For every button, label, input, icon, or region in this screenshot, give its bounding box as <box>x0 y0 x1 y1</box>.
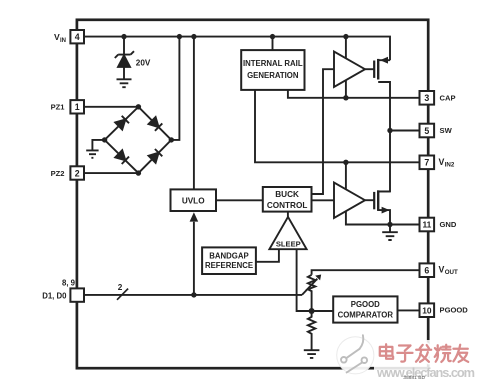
wire PGOOD comparator to pin 10 <box>398 309 420 311</box>
transistor Q2 NMOS gate lead <box>365 199 374 201</box>
watermark chinese characters 电子发烧友 <box>380 344 468 362</box>
triangle SLEEP comparator <box>269 217 306 249</box>
svg-text:www.elecfans.com: www.elecfans.com <box>376 365 475 380</box>
arrowhead into UVLO <box>190 212 199 221</box>
wire driver1 top power rail <box>345 37 347 59</box>
svg-text:GND: GND <box>440 220 457 229</box>
wire VIN rail down to UVLO top <box>193 37 195 190</box>
svg-text:PGOOD: PGOOD <box>440 306 469 315</box>
wire VIN rail down to INTERNAL RAIL GENERATION <box>272 37 274 51</box>
bus width slash and label 2 <box>117 289 128 300</box>
svg-text:2: 2 <box>75 168 80 178</box>
wire bridge right node to VIN rail <box>171 37 179 140</box>
wire driver1 bottom rail to CAP line <box>345 80 347 98</box>
svg-text:35881 BD: 35881 BD <box>403 375 425 381</box>
zener diode 20V <box>115 51 134 79</box>
wire driver2 top rail from VIN2 <box>345 162 347 189</box>
wire BUCK to driver2 input <box>312 199 335 201</box>
wire PZ1 to bridge top node <box>84 106 138 108</box>
svg-text:UVLO: UVLO <box>182 196 205 205</box>
resistor R2 (divider bottom) <box>308 311 315 350</box>
pin 11 box <box>420 218 435 232</box>
wire VIN rail (pin 4 to PMOS drain corner) <box>84 37 390 61</box>
wire zener stub from VIN rail <box>123 37 125 55</box>
box INTERNAL RAIL GENERATION <box>241 50 304 90</box>
svg-text:1: 1 <box>75 102 80 112</box>
ground below zener <box>117 79 132 87</box>
wire driver2 bottom rail and GND line to pin 11 <box>346 211 420 224</box>
svg-text:BUCK: BUCK <box>275 190 299 199</box>
svg-text:IN2: IN2 <box>445 162 455 169</box>
svg-text:GENERATION: GENERATION <box>247 71 299 80</box>
pin 1 box <box>70 100 84 113</box>
svg-text:4: 4 <box>75 32 80 42</box>
pin 6 box <box>420 263 435 277</box>
svg-text:SLEEP: SLEEP <box>276 239 301 248</box>
svg-text:7: 7 <box>424 158 429 168</box>
wiper arrow of programmable divider <box>302 279 317 295</box>
pin 7 box <box>420 156 435 170</box>
svg-text:CONTROL: CONTROL <box>267 201 307 210</box>
wire CAP line from IRG to pin 3 <box>288 90 420 98</box>
wire VOUT line pin 6 to divider <box>312 270 420 275</box>
ground at NMOS source <box>382 225 398 241</box>
svg-text:CAP: CAP <box>440 94 456 103</box>
pin 8,9 box (D1,D0) <box>70 288 84 301</box>
svg-text:PZ2: PZ2 <box>51 169 65 178</box>
svg-text:V: V <box>439 157 445 167</box>
wire BANDGAP to SLEEP base <box>256 249 279 262</box>
box PGOOD COMPARATOR <box>333 296 397 322</box>
bridge diode bottom-right <box>148 149 162 163</box>
wire SLEEP apex to BUCK CONTROL <box>287 212 289 218</box>
bridge diode top-right <box>148 117 162 131</box>
wire bridge left node to ground <box>92 140 104 151</box>
svg-text:5: 5 <box>424 126 429 136</box>
ground below R2 <box>304 350 320 358</box>
wire D1,D0 bus <box>84 294 302 296</box>
op-amp driver U1 (top gate driver) <box>334 52 365 88</box>
svg-text:BANDGAP: BANDGAP <box>209 251 248 260</box>
wire VIN2 line from IRG to pin 7 <box>255 90 420 162</box>
pin 5 box <box>420 124 435 138</box>
box BANDGAP REFERENCE <box>202 247 256 274</box>
IC outer boundary box <box>77 20 428 368</box>
ground at bridge <box>86 150 98 157</box>
wire UVLO enable arrow from D-bus <box>193 222 195 295</box>
svg-text:2: 2 <box>118 283 123 292</box>
wire SW line to pin 5 <box>390 130 420 132</box>
svg-text:COMPARATOR: COMPARATOR <box>338 311 394 320</box>
transistor Q2 NMOS <box>374 190 390 224</box>
bridge diode left-top <box>115 116 129 130</box>
wire PZ2 to bridge bottom node <box>84 172 138 174</box>
resistor R1 (programmable divider top) <box>308 275 315 311</box>
wire BUCK to driver1 input <box>312 69 335 194</box>
svg-text:V: V <box>439 265 445 275</box>
svg-text:6: 6 <box>424 266 429 276</box>
svg-text:PGOOD: PGOOD <box>351 300 380 309</box>
box BUCK CONTROL <box>263 187 312 212</box>
bridge rectifier arms <box>105 107 172 173</box>
svg-text:8, 9: 8, 9 <box>62 279 76 288</box>
transistor Q1 PMOS <box>374 57 390 131</box>
svg-text:11: 11 <box>422 220 431 230</box>
svg-text:INTERNAL RAIL: INTERNAL RAIL <box>243 59 303 68</box>
box UVLO <box>171 189 217 211</box>
watermark elecfans logo circle <box>337 335 374 374</box>
pin 10 box <box>420 303 435 317</box>
svg-text:SW: SW <box>440 126 453 135</box>
wire SW down to NMOS drain <box>378 131 390 192</box>
wire junction to PGOOD comparator input <box>312 310 334 312</box>
pin 3 box <box>420 91 435 105</box>
bridge diode left-bottom <box>115 150 129 164</box>
svg-text:REFERENCE: REFERENCE <box>205 261 253 270</box>
transistor Q1 PMOS gate lead <box>365 68 374 70</box>
wire SLEEP output down to divider junction <box>297 249 334 311</box>
watermark white glow <box>374 340 484 380</box>
svg-text:OUT: OUT <box>445 269 458 276</box>
pin 4 box <box>70 30 84 43</box>
svg-text:20V: 20V <box>136 58 151 67</box>
svg-text:IN: IN <box>60 38 66 44</box>
pin 2 box <box>70 166 84 179</box>
svg-text:10: 10 <box>422 305 432 315</box>
wire UVLO to BUCK CONTROL <box>216 199 263 201</box>
svg-text:PZ1: PZ1 <box>51 103 66 112</box>
svg-text:3: 3 <box>424 93 429 103</box>
op-amp driver U2 (bottom gate driver) <box>334 183 365 219</box>
svg-text:D1, D0: D1, D0 <box>42 291 67 300</box>
